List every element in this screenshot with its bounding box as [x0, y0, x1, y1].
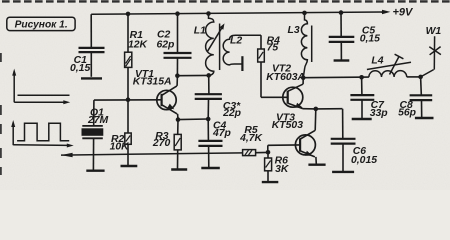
top photo border dashes — [2, 0, 450, 2]
wire: +9V supply rail — [91, 12, 382, 14]
ground (R6) — [262, 181, 279, 183]
wire: VT1 base to Q1/R1/R2 node — [94, 99, 162, 101]
resistor R4 — [258, 35, 288, 97]
ground (C5) — [334, 59, 350, 61]
wire: L4 right to antenna node — [407, 76, 421, 78]
svg-text:47p: 47p — [212, 128, 232, 139]
wire: R5/R6 node to VT3 base — [268, 145, 300, 153]
ground (Q1) — [86, 169, 104, 171]
capacitor C4 — [198, 119, 222, 167]
inductor L2 — [223, 35, 261, 71]
capacitor C1 — [79, 14, 105, 77]
svg-text:0,15: 0,15 — [360, 34, 380, 45]
+9V arrow — [382, 10, 390, 15]
resistor R1 — [125, 14, 132, 100]
svg-text:27M: 27M — [87, 115, 109, 126]
svg-text:4,7K: 4,7K — [239, 133, 263, 144]
svg-text:10K: 10K — [110, 141, 131, 152]
ground (VT3 emitter) — [308, 163, 325, 165]
inductor L1 (variable) — [206, 14, 223, 76]
capacitor C2 — [164, 14, 192, 76]
inductor L3 — [301, 13, 311, 78]
ground (C8) — [415, 117, 434, 119]
wire: VT1 emitter node (R3, C3, C4) — [178, 118, 208, 121]
svg-text:3K: 3K — [275, 164, 290, 175]
quartz resonator Q1 — [82, 100, 104, 170]
transistor VT1 KT315A — [157, 76, 178, 120]
capacitor C3* — [195, 75, 222, 119]
svg-text:12K: 12K — [128, 40, 149, 51]
svg-text:33p: 33p — [370, 108, 389, 119]
ground (C7) — [352, 118, 372, 120]
capacitor C7 — [350, 77, 374, 118]
resistor R2 — [125, 100, 131, 166]
waveform pictogram: square wave (axes) — [13, 123, 69, 146]
ground (R3) — [171, 168, 187, 170]
transistor VT2 KT603A — [283, 78, 316, 109]
svg-text:KT503: KT503 — [272, 120, 303, 131]
resistor R3 — [174, 120, 181, 169]
ground (C4) — [201, 167, 220, 169]
ground (C1) — [81, 77, 102, 79]
svg-text:0,15: 0,15 — [70, 63, 90, 74]
svg-text:270: 270 — [152, 138, 171, 149]
svg-text:0,015: 0,015 — [351, 155, 377, 166]
resistor R5 — [243, 150, 268, 156]
capacitor C8 — [410, 77, 433, 117]
svg-text:L4: L4 — [371, 55, 383, 66]
svg-text:62p: 62p — [157, 40, 176, 51]
left photo border dashes — [0, 53, 2, 175]
svg-text:KT315A: KT315A — [133, 77, 172, 88]
wire: L3 bottom to L4 — [303, 76, 369, 79]
inductor L4 (variable) — [367, 54, 411, 77]
antenna W1 — [421, 36, 441, 77]
transistor VT3 KT503 — [295, 109, 316, 164]
svg-text:22p: 22p — [222, 108, 242, 119]
svg-text:W1: W1 — [426, 26, 442, 37]
resistor R6 — [265, 152, 272, 181]
svg-text:L3: L3 — [288, 25, 300, 36]
wire: VT2 emitter node to C6 — [316, 109, 343, 138]
svg-text:Рисунок 1.: Рисунок 1. — [15, 20, 68, 31]
ground (C6) — [332, 171, 354, 173]
svg-text:+9V: +9V — [393, 6, 415, 18]
svg-text:75: 75 — [267, 43, 279, 54]
capacitor C6 — [331, 139, 356, 171]
wire: collector node (C2, VT1, L1, C3) — [177, 74, 208, 76]
svg-text:KT603A: KT603A — [266, 72, 305, 83]
figure caption box "Рисунок 1." — [7, 17, 75, 31]
svg-text:L2: L2 — [230, 35, 242, 46]
ground (R2) — [121, 165, 138, 167]
wire: common bus with arrow — [61, 153, 243, 155]
svg-text:56p: 56p — [398, 108, 417, 119]
waveform pictogram: constant level (axes) — [14, 71, 69, 102]
svg-text:L1: L1 — [194, 26, 206, 37]
capacitor C5 — [329, 13, 355, 60]
